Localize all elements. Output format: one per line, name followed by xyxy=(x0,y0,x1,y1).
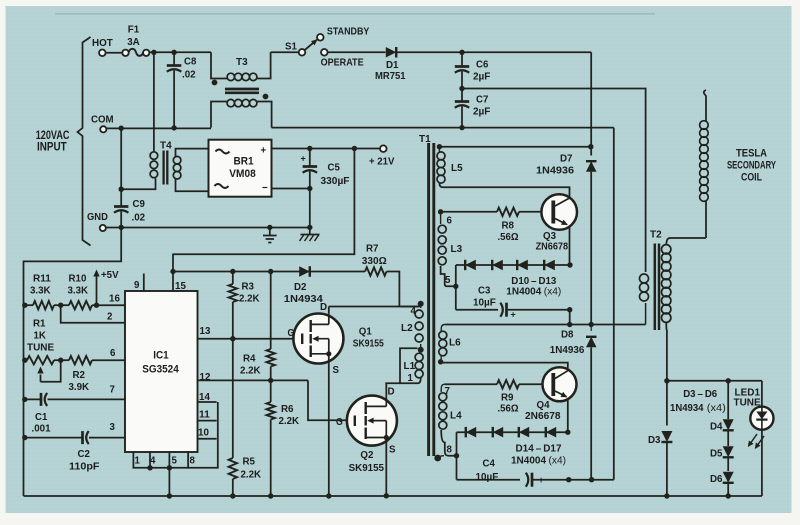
wire pin 8 stub xyxy=(187,452,189,468)
wire to R5 xyxy=(232,339,234,458)
transistor Q1 SK9155 MOSFET xyxy=(293,314,343,364)
switch S1 xyxy=(299,49,306,56)
svg-text:HOT: HOT xyxy=(92,37,113,49)
junction +21V feed xyxy=(352,146,357,151)
wire T3 top-right lead xyxy=(257,52,271,78)
inductor tesla secondary coil xyxy=(700,121,709,130)
wire R7 to primary feed xyxy=(387,272,400,307)
wire Q1 source inside xyxy=(328,354,330,364)
svg-text:L2: L2 xyxy=(401,322,413,334)
wire pin 10 xyxy=(198,438,217,440)
junction Q1 source-rail xyxy=(326,493,331,498)
junction pin5-bus xyxy=(167,465,172,470)
capacitor C4 xyxy=(531,473,534,487)
wire COM rail xyxy=(107,127,212,129)
svg-text:TUNE: TUNE xyxy=(27,342,54,354)
wire HOT to T4 primary xyxy=(153,52,155,152)
diode D12 xyxy=(517,260,528,270)
wire T3 bottom-left lead xyxy=(211,102,227,128)
LED LED1 xyxy=(750,407,773,430)
junction bus-rail xyxy=(167,493,172,498)
diode D6 xyxy=(723,472,734,483)
junction C7 bottom xyxy=(459,125,464,130)
+5V arrow xyxy=(96,273,98,305)
wire pin15-R3-R4-D2 line xyxy=(173,271,365,273)
svg-text:13: 13 xyxy=(200,325,211,337)
wire COM tap down to C9 xyxy=(120,128,122,205)
resistor R6 xyxy=(267,402,275,420)
transformer T3 core xyxy=(225,88,259,91)
capacitor C8 xyxy=(167,64,182,67)
wire Q1 drain to T1 terminal 4 xyxy=(329,304,421,307)
wire D6 to rail xyxy=(727,483,729,496)
LED1 emission arrows xyxy=(749,434,758,446)
svg-text:D2: D2 xyxy=(294,281,307,293)
wire Q3 collector up xyxy=(569,187,571,198)
resistor R3 xyxy=(229,284,237,302)
wire pin 9 stub xyxy=(143,274,145,292)
svg-text:C9: C9 xyxy=(133,198,145,210)
wire C6-C7 link xyxy=(461,72,463,102)
junction L6 bottom xyxy=(438,359,443,364)
fuse F1 xyxy=(122,50,128,56)
wire L6 bottom lead xyxy=(440,356,442,361)
svg-text:R10: R10 xyxy=(69,273,87,285)
terminal +21V xyxy=(380,145,387,152)
capacitor C9 xyxy=(114,205,128,208)
junction R4-R6-pin12 xyxy=(268,378,273,383)
svg-text:R1: R1 xyxy=(33,318,46,330)
transformer T3 top winding xyxy=(227,73,234,80)
svg-text:.56Ω: .56Ω xyxy=(498,403,519,415)
svg-text:3A: 3A xyxy=(127,36,140,48)
junction rail-C2 xyxy=(22,435,27,440)
svg-text:110pF: 110pF xyxy=(69,461,100,473)
svg-text:D: D xyxy=(388,386,395,398)
label BR1 ac top xyxy=(216,150,230,154)
svg-text:OPERATE: OPERATE xyxy=(321,56,364,68)
svg-text:G: G xyxy=(336,416,343,428)
svg-text:STANDBY: STANDBY xyxy=(327,25,370,37)
junction D8 node xyxy=(589,322,594,327)
inductor L5 xyxy=(437,152,445,160)
diode D10 xyxy=(465,260,476,270)
wire R1 wiper tie xyxy=(41,360,61,382)
diode D14 xyxy=(466,427,476,438)
wire D5-D6 xyxy=(727,457,729,471)
inductor L6 xyxy=(439,331,447,339)
svg-text:SECONDARY: SECONDARY xyxy=(727,159,777,171)
transformer T4 core xyxy=(162,151,164,185)
transformer T2 secondary winding xyxy=(662,245,671,254)
wire R5 to rail xyxy=(232,479,234,496)
wire bus to bottom rail xyxy=(168,468,170,496)
wire C4 left xyxy=(457,479,521,481)
diode D11 xyxy=(492,260,503,270)
svg-text:+: + xyxy=(511,310,517,321)
svg-text:L3: L3 xyxy=(451,243,463,255)
svg-text:C1: C1 xyxy=(35,411,47,423)
svg-text:C5: C5 xyxy=(328,162,340,174)
wire D14-D17 line xyxy=(457,431,568,433)
svg-text:C3: C3 xyxy=(478,285,490,297)
wire joint xyxy=(384,382,387,384)
wire C6 top lead xyxy=(461,52,463,66)
wire Q4 cell left riser xyxy=(456,432,458,480)
capacitor C6 xyxy=(455,65,469,68)
wire L4 top lead xyxy=(441,384,444,392)
svg-text:2.2K: 2.2K xyxy=(241,469,262,481)
wire pin 11 xyxy=(198,420,217,422)
resistor R7 xyxy=(365,267,387,275)
svg-text:Q2: Q2 xyxy=(360,449,373,461)
diode D17 xyxy=(546,427,556,438)
wire C5 top lead xyxy=(309,149,311,166)
wire R3 to pin13 line xyxy=(232,302,234,339)
svg-text:10µF: 10µF xyxy=(476,471,499,483)
phasing dot T3 right xyxy=(263,94,269,100)
junction C3-emitter xyxy=(567,307,572,312)
wire Q2 drain lead xyxy=(385,383,387,396)
svg-text:D7: D7 xyxy=(560,153,573,165)
svg-text:7: 7 xyxy=(110,384,116,396)
svg-text:6: 6 xyxy=(110,347,116,359)
wire mid tap to T2 left top xyxy=(462,89,646,273)
svg-text:330Ω: 330Ω xyxy=(362,255,387,267)
terminal COM xyxy=(100,126,106,132)
wire pin12 to Q2 gate xyxy=(308,380,347,420)
junction HOT-T4 tap xyxy=(151,50,156,55)
wire C3 right xyxy=(508,309,570,311)
junction C4-emitter xyxy=(566,477,571,482)
wire C8 bottom lead xyxy=(173,71,175,128)
svg-text:(x4): (x4) xyxy=(549,455,567,466)
transformer T2 core xyxy=(654,244,657,331)
svg-text:330µF: 330µF xyxy=(321,175,351,187)
junction rail-R1 xyxy=(22,358,27,363)
junction C3 stub-L6 line xyxy=(567,322,572,327)
svg-text:T4: T4 xyxy=(160,140,172,152)
winding end dot T1 bottom xyxy=(434,455,441,462)
svg-text:2: 2 xyxy=(107,311,113,323)
wire L5 top to D7 node xyxy=(439,146,590,148)
svg-text:INPUT: INPUT xyxy=(37,140,67,154)
wire to D4 xyxy=(727,381,729,419)
wire R3 top lead xyxy=(232,272,234,285)
wire C3 left xyxy=(456,309,498,311)
diode D8 xyxy=(586,337,597,347)
inductor L2 xyxy=(415,310,423,318)
wire detector top line xyxy=(667,380,762,382)
svg-text:T2: T2 xyxy=(650,229,662,241)
junction pin15 xyxy=(170,269,175,274)
wire T2 secondary bottom down xyxy=(665,322,668,381)
svg-text:T1: T1 xyxy=(419,133,431,145)
bridge rectifier BR1 xyxy=(209,140,272,197)
wire T3 bottom-right lead xyxy=(257,102,272,128)
wire C8 top lead xyxy=(173,52,175,65)
wire BR1 plus to +21V xyxy=(272,148,381,150)
svg-text:(x4): (x4) xyxy=(707,403,726,414)
svg-text:1: 1 xyxy=(135,455,141,467)
svg-text:L4: L4 xyxy=(450,410,462,422)
junction terminal8-cell xyxy=(454,453,459,458)
capacitor C1 xyxy=(40,393,43,406)
wire L4 bottom terminal 8 xyxy=(441,430,456,456)
wire D3 top lead xyxy=(666,381,668,426)
junction C9-GND xyxy=(119,225,124,230)
wire T4 secondary bottom to BR1 xyxy=(176,179,209,191)
capacitor C3 xyxy=(505,303,508,317)
wire tesla coil top lead xyxy=(704,90,706,121)
svg-text:SK9155: SK9155 xyxy=(353,337,384,349)
wire bottom ground rail xyxy=(24,495,762,497)
svg-text:2.2K: 2.2K xyxy=(279,415,300,427)
junction R5-rail xyxy=(230,493,235,498)
svg-text:1N4004: 1N4004 xyxy=(511,454,546,466)
wire primary feed joins drain line xyxy=(399,306,418,308)
svg-text:10: 10 xyxy=(198,427,209,439)
junction R3 top xyxy=(230,269,235,274)
wire T4 secondary top to BR1 xyxy=(176,149,209,157)
svg-text:8: 8 xyxy=(190,455,196,467)
svg-text:S: S xyxy=(333,364,340,376)
wire D3 to rail xyxy=(666,442,668,496)
wire pin 4 stub xyxy=(149,452,151,468)
junction R1-R2 xyxy=(58,358,63,363)
junction +5V arrow xyxy=(94,303,99,308)
wire D10-D13 line xyxy=(456,264,570,266)
wire pin 13 to Q1 gate xyxy=(198,338,302,340)
capacitor C5 xyxy=(303,165,318,168)
wire L2 top lead xyxy=(420,304,422,308)
wire L3 bottom terminal 5 xyxy=(441,266,456,286)
svg-text:2µF: 2µF xyxy=(473,71,491,83)
junction rail-C1 xyxy=(22,397,27,402)
svg-text:R5: R5 xyxy=(243,456,256,468)
svg-text:T3: T3 xyxy=(236,56,248,68)
wire C4 right to return riser xyxy=(533,479,614,481)
svg-text:ZN6678: ZN6678 xyxy=(536,240,569,252)
inductor L1 xyxy=(415,353,423,361)
wire pin 15 riser xyxy=(172,254,174,292)
svg-text:D3: D3 xyxy=(648,434,661,446)
svg-text:L6: L6 xyxy=(449,337,461,349)
svg-text:16: 16 xyxy=(109,293,120,305)
wire L6 top lead xyxy=(441,325,444,332)
svg-text:SK9155: SK9155 xyxy=(349,462,385,474)
terminal GND xyxy=(100,225,106,231)
svg-text:5: 5 xyxy=(445,274,451,286)
diode D13 xyxy=(544,260,555,270)
wire GND rail xyxy=(106,227,310,229)
wire L6 top line to T2 xyxy=(445,324,646,326)
inductor L3 xyxy=(438,225,446,233)
diode D16 xyxy=(519,427,529,438)
svg-text:L5: L5 xyxy=(451,162,463,174)
junction L5 top xyxy=(437,144,442,149)
svg-text:−: − xyxy=(262,182,268,194)
transformer T4 secondary winding xyxy=(173,156,181,164)
phasing dot T3 left xyxy=(212,80,218,86)
svg-text:C6: C6 xyxy=(476,59,488,71)
wire D1 to C6/D7 rail xyxy=(397,51,592,53)
label BR1 ac bottom xyxy=(215,184,229,188)
wire ground to left rail xyxy=(24,227,122,496)
junction C6-C7 mid xyxy=(459,86,464,91)
terminal HOT xyxy=(99,50,106,57)
svg-text:IC1: IC1 xyxy=(153,350,168,362)
svg-text:D: D xyxy=(320,301,327,313)
svg-text:.02: .02 xyxy=(182,69,196,81)
junction D17-emitter xyxy=(565,430,570,435)
svg-text:2N6678: 2N6678 xyxy=(525,410,561,422)
svg-text:G: G xyxy=(288,327,295,339)
diode D4 xyxy=(723,419,734,430)
earth ground symbol xyxy=(269,227,271,235)
svg-text:.02: .02 xyxy=(132,212,146,224)
svg-text:.001: .001 xyxy=(32,423,51,435)
svg-text:SG3524: SG3524 xyxy=(142,363,179,375)
svg-text:GND: GND xyxy=(87,211,108,223)
wire R6 top lead xyxy=(270,380,272,402)
wire L3 top lead xyxy=(440,212,442,224)
faint crease line across top xyxy=(55,13,655,14)
svg-text:1: 1 xyxy=(408,372,414,384)
svg-text:(x4): (x4) xyxy=(544,286,562,297)
svg-text:R7: R7 xyxy=(366,243,379,255)
chassis ground symbol xyxy=(309,227,311,234)
wire pin 5 stub xyxy=(168,452,170,468)
wire C3 node to L6 line xyxy=(569,310,571,325)
svg-text:2.2K: 2.2K xyxy=(239,293,260,305)
wire L2 bottom lead xyxy=(420,344,422,348)
svg-text:8: 8 xyxy=(447,444,453,456)
wire C5 bottom lead xyxy=(309,172,311,228)
junction detector feed xyxy=(664,378,669,383)
svg-text:D14 – D17: D14 – D17 xyxy=(516,442,562,454)
svg-text:1K: 1K xyxy=(34,330,47,342)
diode D1 xyxy=(386,47,396,58)
diode D5 xyxy=(723,446,734,457)
junction R11-R10 pin2 tap xyxy=(58,303,63,308)
diode D7 xyxy=(586,161,597,172)
wire L6 bottom to Q4 collector xyxy=(441,363,568,369)
svg-text:TESLA: TESLA xyxy=(736,147,767,159)
svg-text:5: 5 xyxy=(172,455,178,467)
junction C5 top xyxy=(307,146,312,151)
svg-text:L1: L1 xyxy=(404,360,416,372)
wire center tap side link xyxy=(400,348,418,383)
resistor R2 xyxy=(69,356,92,364)
svg-text:VM08: VM08 xyxy=(229,168,256,180)
svg-text:+: + xyxy=(261,145,267,157)
svg-text:10µF: 10µF xyxy=(473,297,496,309)
junction COM-C9 tap xyxy=(119,126,124,131)
junction C8 tap xyxy=(171,50,176,55)
transformer T3 bottom winding xyxy=(227,99,234,106)
svg-text:MR751: MR751 xyxy=(375,70,406,82)
wire R10 to pin16 xyxy=(92,304,125,306)
transformer T4 primary winding xyxy=(150,152,158,160)
resistor R9 xyxy=(497,380,519,388)
wire R2 to pin6 xyxy=(92,359,125,361)
svg-text:C8: C8 xyxy=(184,56,196,68)
potentiometer R1 xyxy=(27,356,54,364)
svg-text:COM: COM xyxy=(91,114,114,126)
svg-text:COIL: COIL xyxy=(741,171,762,183)
wire R1-R2 xyxy=(54,359,69,361)
wire pin 12 line xyxy=(198,379,309,381)
junction T1 terminal 4 xyxy=(418,301,424,307)
junction Q2 source-rail xyxy=(384,493,389,498)
wire pins 1/4/5/8 bus xyxy=(133,402,217,468)
svg-text:3.3K: 3.3K xyxy=(30,285,51,297)
wire LED bottom lead xyxy=(761,430,763,496)
junction chassis ground xyxy=(307,225,312,230)
junction R6-rail xyxy=(268,493,273,498)
svg-text:1N4004: 1N4004 xyxy=(506,285,541,297)
wire D8 cathode lead xyxy=(590,325,592,332)
wire L1 top lead xyxy=(420,350,422,353)
svg-text:C2: C2 xyxy=(78,448,90,460)
resistor R8 xyxy=(497,208,519,216)
wire C1 to pin7 xyxy=(48,398,126,400)
wire Q4 emitter down xyxy=(567,399,569,433)
resistor R4 xyxy=(267,349,275,367)
capacitor C2 xyxy=(81,431,84,444)
svg-text:14: 14 xyxy=(199,391,210,403)
junction D7 node xyxy=(588,144,593,149)
resistor R11 xyxy=(33,301,54,309)
wire return rail to T2 riser xyxy=(272,127,614,129)
inductor L4 xyxy=(439,393,447,401)
svg-text:4: 4 xyxy=(150,455,156,467)
transformer T2 primary winding xyxy=(640,274,649,283)
junction T1 center tap xyxy=(418,347,424,353)
transformer T1 core xyxy=(427,143,430,456)
wire rail to R1 xyxy=(24,359,28,361)
wire T3 top-left lead xyxy=(211,52,227,78)
resistor R5 xyxy=(229,458,237,479)
svg-text:.56Ω: .56Ω xyxy=(498,231,519,243)
svg-text:R11: R11 xyxy=(33,273,51,285)
svg-text:3: 3 xyxy=(110,421,116,433)
wire R9 to Q4 base xyxy=(519,383,551,385)
wire tesla coil bottom lead xyxy=(705,201,707,238)
svg-text:6: 6 xyxy=(447,215,453,227)
diode D2 xyxy=(299,266,310,277)
svg-text:9: 9 xyxy=(134,279,140,291)
svg-text:3.3K: 3.3K xyxy=(68,285,89,297)
wire T2 secondary top to tesla coil xyxy=(666,238,706,245)
IC U1 SG3524 xyxy=(125,291,198,452)
svg-text:D8: D8 xyxy=(561,329,574,341)
svg-text:R3: R3 xyxy=(242,281,255,293)
wire Q3 emitter down xyxy=(569,226,571,265)
transistor Q4 2N6678 xyxy=(543,367,577,401)
wire Q2 source to rail xyxy=(385,438,387,496)
svg-text:2µF: 2µF xyxy=(473,106,491,118)
wire C9 bottom lead xyxy=(120,212,122,228)
wire R6 to rail xyxy=(270,420,272,497)
diode D3 xyxy=(661,431,672,442)
resistor R10 xyxy=(69,301,92,309)
junction C8-COM xyxy=(171,125,176,130)
svg-text:BR1: BR1 xyxy=(233,156,253,168)
svg-text:S: S xyxy=(389,444,396,456)
wire pin 14 xyxy=(198,401,217,403)
